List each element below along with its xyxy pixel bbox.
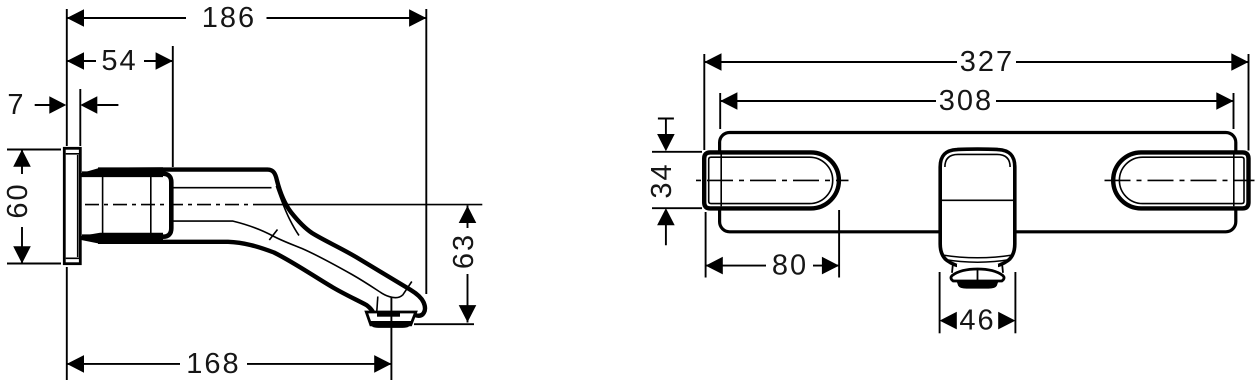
left union port <box>704 152 839 208</box>
dimension 46 left arrowhead <box>940 312 957 330</box>
svg-text:186: 186 <box>202 2 256 34</box>
extension line 46 left <box>939 272 941 333</box>
extension line 54 right (x=173) <box>172 46 174 167</box>
dimension 327 line <box>704 61 1248 63</box>
cylinder bottom band fill <box>81 233 164 244</box>
dimension 168 right arrowhead <box>374 355 391 373</box>
wall plate <box>64 148 80 263</box>
dimension 34 bottom arrowhead <box>657 208 675 225</box>
svg-text:54: 54 <box>101 45 137 77</box>
dimension 63 bottom arrowhead <box>459 305 477 322</box>
dimension 34 line <box>665 119 667 246</box>
spout upper outline <box>98 170 425 316</box>
extension line 80 right <box>838 210 840 278</box>
svg-text:327: 327 <box>960 46 1014 78</box>
dimension 46 right arrowhead <box>998 312 1015 330</box>
dimension 60 line <box>21 150 23 264</box>
dimension 54 right arrowhead <box>156 52 173 70</box>
dimension 34 top tick <box>658 118 674 120</box>
dimension 308 right arrowhead <box>1216 92 1233 110</box>
dimension 168 left arrowhead <box>67 355 84 373</box>
surface tick near knee <box>269 230 277 241</box>
dimension 54 left arrowhead <box>67 52 84 70</box>
extension line spout tip (x=425) <box>425 9 427 294</box>
extension line 7 right (x=80) <box>79 89 81 146</box>
extension line 60 top <box>7 149 61 151</box>
dimension 308 left arrowhead <box>720 92 737 110</box>
spout inner corner line <box>276 186 299 236</box>
mixer mouth <box>951 263 1004 289</box>
dimension 34 top arrowhead <box>657 134 675 151</box>
dimension 7 tail lines <box>35 104 119 106</box>
svg-text:46: 46 <box>959 305 995 337</box>
dimension 327 right arrowhead <box>1231 53 1248 71</box>
dimension 63 top arrowhead <box>459 206 477 223</box>
extension line 60 bottom <box>7 263 61 265</box>
connector sleeve <box>82 174 171 237</box>
svg-text:308: 308 <box>939 85 993 117</box>
surface tick above aerator <box>377 297 378 312</box>
extension line 34 top <box>652 151 702 153</box>
dimension 308 line <box>720 100 1233 102</box>
extension line 327 right <box>1248 54 1250 151</box>
extension line 308 left <box>719 93 721 129</box>
dimension 327 left arrowhead <box>704 53 721 71</box>
extension line 34 bottom <box>652 207 702 209</box>
dimension 7 left arrowhead <box>49 96 66 114</box>
sleeve inner vertical lines <box>103 177 151 234</box>
extension line 327 left <box>703 54 705 150</box>
spout lower outline <box>98 242 373 312</box>
dimension 80 left arrowhead <box>706 257 723 275</box>
svg-text:34: 34 <box>646 162 678 198</box>
svg-text:168: 168 <box>186 348 240 380</box>
dimension 54 line <box>67 60 173 62</box>
surface tick near tip <box>403 282 412 296</box>
svg-text:80: 80 <box>772 250 808 282</box>
dimension 60 top arrowhead <box>13 150 31 167</box>
handle body <box>940 149 1015 271</box>
dimension 7 right arrowhead <box>80 96 97 114</box>
dimension 186 right arrowhead <box>409 9 426 27</box>
dimension 168 line <box>67 363 392 365</box>
dimension 60 bottom arrowhead <box>13 246 31 263</box>
dimension 80 right arrowhead <box>822 257 839 275</box>
right port centerline <box>1105 179 1255 181</box>
svg-text:7: 7 <box>7 89 23 121</box>
spout arm inner top line <box>173 187 272 189</box>
extension line 46 right <box>1014 272 1016 333</box>
extension line 308 right <box>1233 93 1235 129</box>
spout arm inner crease line <box>173 221 403 298</box>
svg-text:60: 60 <box>2 182 34 218</box>
svg-text:63: 63 <box>448 233 480 269</box>
dimension 63 line <box>467 206 469 323</box>
extension line left (x=67) <box>66 9 68 380</box>
right union port <box>1113 152 1248 208</box>
extension line 168 right (x=391) <box>390 297 392 380</box>
cylinder top band fill <box>81 167 164 177</box>
aerator left view <box>366 311 416 328</box>
mixer bar body <box>720 133 1236 232</box>
dimension 186 line <box>67 17 427 19</box>
centerline left view <box>85 204 266 206</box>
dimension 186 left arrowhead <box>67 9 84 27</box>
extension line 63 bottom <box>414 323 474 325</box>
extension line 80 left <box>705 212 707 278</box>
dimension 80 line <box>706 265 840 267</box>
left port centerline <box>696 179 849 181</box>
